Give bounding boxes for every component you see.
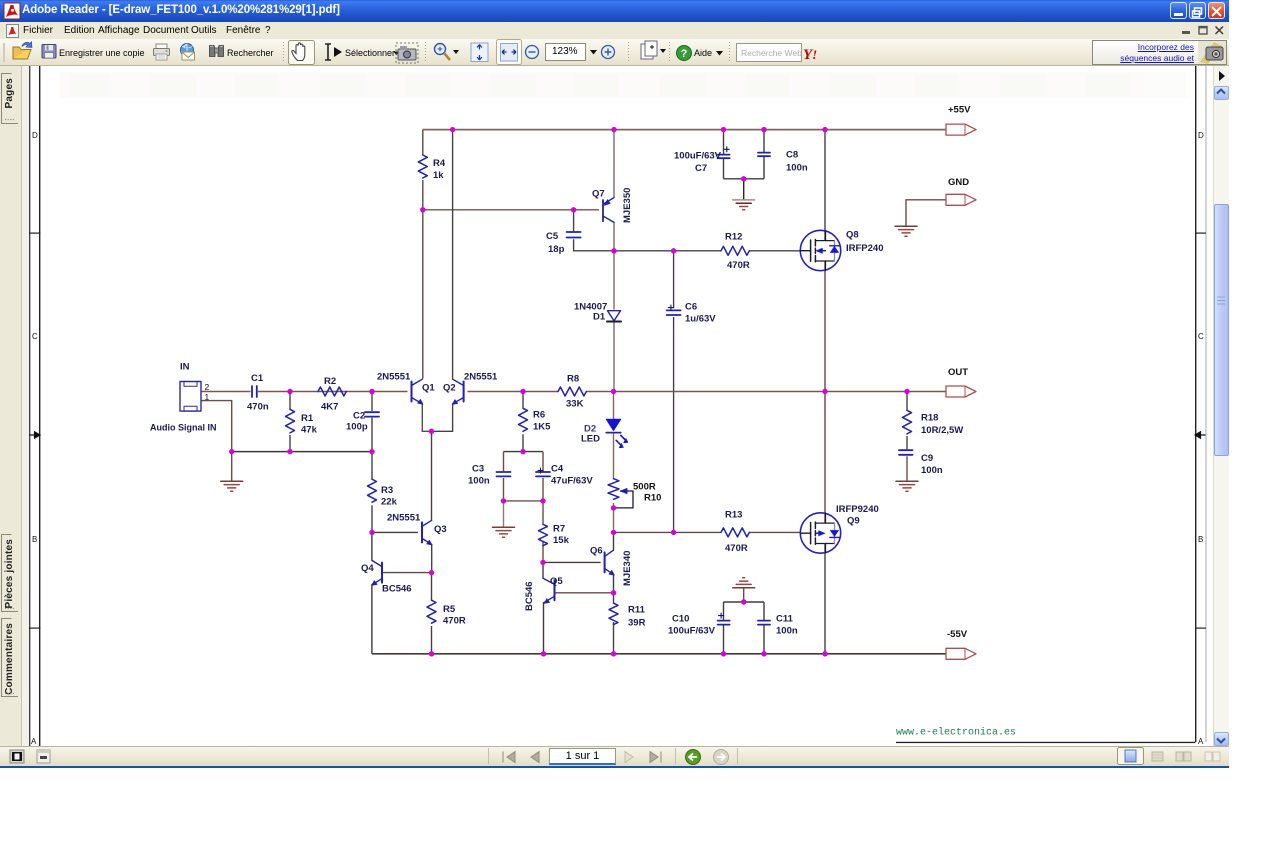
wire Q6 base line — [543, 561, 601, 563]
wire input pin1 down — [201, 401, 232, 452]
wire bottom bus — [372, 653, 946, 655]
green back circle — [686, 750, 701, 765]
resistor R8 — [558, 387, 586, 396]
status left icon 1 — [10, 750, 24, 763]
transistor Q2 2N5551 — [452, 379, 463, 404]
wire C6 column upper — [673, 251, 675, 308]
wire GND connector branch — [906, 200, 946, 226]
power connector -55V — [946, 648, 976, 659]
wire OUT line Q2 base to arrow — [468, 391, 947, 393]
sheet frame left border lines — [29, 66, 30, 746]
aide — [677, 46, 692, 61]
wire Q5 collector riser — [542, 562, 544, 578]
status left icon 2 — [37, 750, 50, 763]
junction dot Q4 base — [429, 570, 434, 575]
magnifier — [435, 44, 446, 55]
resistor R12 — [721, 246, 749, 255]
zone dividers right — [1195, 233, 1206, 234]
transistor Q4 BC546 — [372, 560, 382, 585]
hand button (active) — [289, 41, 315, 65]
next page (disabled) — [625, 752, 633, 763]
wire C3C4 top bus — [504, 451, 544, 453]
title block top edge — [896, 742, 1195, 743]
adobe reader app icon — [4, 3, 20, 19]
wire C10C11 top join — [724, 601, 765, 603]
wire R12 to Q8 gate — [749, 250, 801, 252]
fit page button — [471, 43, 488, 62]
zone dividers left — [29, 233, 40, 234]
MDI child buttons — [1182, 31, 1190, 34]
wire D1 column upper — [613, 251, 615, 310]
minus zoom — [526, 46, 539, 59]
gray fwd circle — [714, 750, 729, 765]
wire R11 leads — [613, 593, 615, 654]
junction dot C10C11 — [741, 599, 746, 604]
wire C9 to ground — [906, 456, 908, 481]
wire R5 leads — [431, 573, 433, 654]
wire Q7 collector to node — [613, 222, 615, 251]
wire Q9 source to bus — [824, 544, 826, 654]
wire C3C4 bottom bus — [504, 500, 544, 502]
wire Q6 emitter to R11 node — [613, 574, 615, 593]
resistor R7 — [539, 524, 548, 545]
resistor R3 — [368, 479, 377, 502]
ICONS_STATUS — [10, 748, 1220, 765]
wire R4 to node — [422, 180, 424, 210]
resistor R1 — [286, 409, 295, 433]
grab handle — [3, 43, 5, 62]
wire R1 column — [289, 392, 291, 452]
junction dots R4 line — [420, 207, 425, 212]
fit width button — [497, 40, 522, 65]
junction dot Q6 base — [540, 560, 545, 565]
mosfet Q8 IRFP240 — [800, 230, 840, 270]
capacitor C8 — [758, 153, 770, 157]
wire C5 bottom to node — [574, 239, 614, 251]
ICONS_TOOLBAR — [3, 40, 1226, 65]
open folder — [13, 50, 31, 60]
wire pot wiper loop — [614, 491, 634, 508]
wire pot node down to R13 line — [613, 508, 615, 533]
wire C1 to Q1 base — [258, 391, 408, 393]
wire input pin2 to C1 — [201, 391, 251, 393]
wire R3 column — [371, 452, 373, 533]
first page — [503, 752, 515, 763]
wire C10 leads — [723, 602, 725, 654]
wire joint down to Q3 collector — [431, 431, 433, 520]
ground C9 — [896, 481, 918, 491]
transistor Q6 MJE340 — [605, 550, 615, 575]
resistor R5 — [427, 600, 436, 623]
LED D2 — [606, 419, 620, 430]
wire Q5 emitter to bus — [543, 603, 545, 654]
junction dots input bus — [229, 449, 234, 454]
wire C7C8 bottom join — [724, 178, 765, 180]
capacitor C5 — [567, 232, 581, 238]
wire Q8 drain from rail — [824, 130, 826, 241]
wire C7 leads — [723, 130, 725, 179]
junction dots top rail — [450, 127, 455, 132]
wire ground stem input — [231, 452, 233, 481]
power connector GND — [946, 194, 976, 205]
snapshot camera — [396, 43, 418, 63]
wire C8 leads — [763, 130, 765, 179]
menubar pdf icon — [7, 25, 19, 38]
plus zoom — [602, 46, 615, 59]
junction dot pot — [611, 505, 616, 510]
layout buttons right — [1118, 748, 1144, 765]
last page — [650, 752, 661, 763]
capacitor C6 electrolytic — [667, 310, 681, 315]
wire ground stem C10C11 — [743, 588, 745, 602]
prev page — [531, 752, 539, 763]
promo box top right — [1092, 40, 1227, 65]
junction dot R11 top — [611, 590, 616, 595]
wire input ground bus — [232, 451, 372, 453]
junction dots bottom bus — [429, 651, 434, 656]
resistor R6 — [519, 408, 528, 431]
SCHEMATIC — [60, 72, 1190, 98]
sheet frame right border lines — [1195, 66, 1196, 742]
select tool — [325, 44, 331, 60]
transistor Q3 2N5551 — [422, 520, 432, 545]
transistor Q7 MJE350 pnp — [603, 198, 614, 223]
resistor R18 — [903, 410, 912, 434]
wire C3 leads — [503, 452, 505, 501]
connector J1 audio input — [180, 382, 201, 412]
wire y209.8 to Q7 base — [423, 209, 599, 211]
wire Q3 emitter down to R5 node — [431, 544, 433, 573]
capacitor C7 electrolytic — [718, 155, 730, 159]
wire C11 leads — [763, 602, 765, 654]
capacitor C2 — [365, 412, 379, 416]
wire Q4 base line — [382, 572, 432, 574]
wire Q1 emitter to joint — [422, 404, 431, 432]
ground C7C8 — [733, 200, 755, 210]
resistor R2 — [318, 387, 346, 396]
capacitor C10 electrolytic — [718, 621, 730, 625]
printer — [156, 44, 167, 49]
capacitor C3 — [497, 472, 511, 476]
mosfet Q9 IRFP9240 — [800, 513, 840, 553]
junction dots signal line — [287, 389, 292, 394]
wire +55V top rail — [423, 129, 946, 131]
transistor Q5 BC546 — [543, 578, 555, 603]
wire ground stem C3 — [503, 501, 505, 527]
wire R7 leads — [542, 501, 544, 563]
ICONS_TITLE — [4, 3, 1225, 81]
transistor Q1 2N5551 — [412, 379, 424, 404]
junction dots R13 line — [369, 530, 374, 535]
wire R13 to Q9 gate — [749, 531, 801, 533]
capacitor C4 electrolytic — [536, 472, 550, 476]
wire LED column — [613, 392, 615, 420]
ground input — [221, 481, 243, 491]
wire Q4 emitter to bottom bus — [371, 585, 373, 654]
nav separators — [488, 748, 489, 764]
wire R6 leads — [522, 392, 524, 452]
wire Q6 collector riser — [613, 532, 615, 549]
left mid arrow — [30, 432, 41, 438]
diode D1 1N4007 — [608, 311, 621, 321]
junction dots y250.8 — [611, 248, 616, 253]
resistor R11 — [609, 603, 618, 624]
wire C5 branch down — [573, 210, 575, 231]
capacitor C1 — [252, 386, 257, 397]
wire y250.8 to R12 — [614, 250, 721, 252]
promo icon camera — [1198, 41, 1226, 64]
wire C2 column — [371, 392, 373, 452]
wire R18 leads — [906, 392, 908, 450]
power connector +55V — [946, 124, 976, 135]
resistor R13 — [721, 528, 749, 537]
toolbar overflow arrow above scrollbar — [1219, 71, 1225, 81]
wire Q9 drain from OUT — [824, 392, 826, 523]
resistor R4 — [418, 155, 427, 178]
wire Q7 emitter column — [613, 130, 615, 198]
wire D1 to out node — [613, 322, 615, 391]
junction dots C3C4 bottom — [501, 498, 506, 503]
binoculars — [210, 46, 216, 57]
potentiometer R10 500R — [608, 479, 619, 500]
wire ground stem C7C8 — [743, 179, 745, 200]
junction dot C7C8 — [741, 176, 746, 181]
combo dropdown — [590, 50, 597, 55]
wire Q5 base line — [555, 592, 614, 594]
ICONS_SCROLL — [5, 90, 1225, 743]
wire C4 leads — [542, 452, 544, 501]
junction dot emitters joint — [429, 429, 434, 434]
wire node to Q1 collector — [422, 210, 424, 379]
capacitor C9 — [899, 450, 913, 455]
wire Q8 source to OUT — [824, 261, 826, 392]
wire R3 node to Q4 collector — [371, 532, 373, 560]
email globe — [181, 44, 194, 57]
wire C6 column lower — [673, 317, 675, 532]
power connector OUT — [946, 386, 976, 397]
wire R4 column upper — [422, 130, 424, 155]
wire LED to pot — [613, 434, 615, 479]
wire Q2 collector column — [452, 130, 454, 379]
save floppy — [42, 45, 56, 59]
wire R13 line left — [614, 531, 722, 533]
ground C3 — [493, 527, 515, 537]
wire Q2 emitter to joint — [432, 404, 453, 432]
wire pot bottom to node — [613, 503, 615, 508]
ground C10C11 inverted — [733, 578, 755, 588]
pages icon — [641, 44, 653, 59]
titlebar button glyphs — [1174, 13, 1183, 16]
capacitor C11 — [758, 621, 770, 625]
wire Q3 base line — [372, 531, 418, 533]
right mid arrow — [1195, 432, 1206, 438]
ground GND connector — [895, 226, 917, 236]
